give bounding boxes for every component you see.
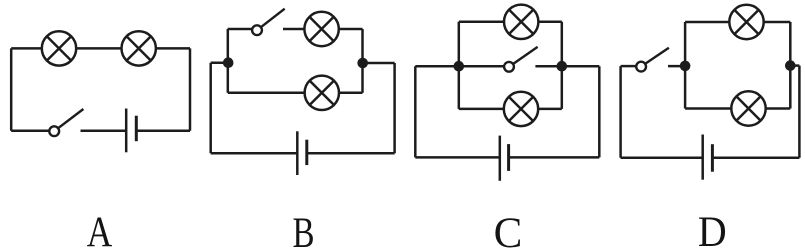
wire: C outer left vertical — [414, 66, 417, 157]
wire: B middle rail left segment — [228, 92, 305, 95]
wire: C right stub to outer — [562, 65, 600, 68]
wire: D bottom left segment — [621, 157, 703, 160]
wire: D top-left stub — [621, 65, 637, 68]
wire: B top rail middle segment — [283, 28, 305, 31]
wire: B left stub to outer — [211, 61, 228, 64]
lamp L1 (circuit D, top) — [729, 5, 763, 39]
wire: A top rail left segment — [11, 47, 41, 50]
svg-text:A: A — [87, 209, 113, 248]
svg-text:C: C — [494, 210, 523, 248]
node (circuit D, right junction) — [785, 60, 796, 71]
node (circuit D, left junction) — [680, 61, 691, 72]
wire: C left stub to outer — [415, 65, 459, 68]
lamp L1 (circuit B, top) — [304, 12, 338, 46]
wire: C outer right vertical — [598, 66, 601, 157]
switch S (circuit B, open) — [252, 9, 285, 35]
node (circuit C, left junction) — [454, 61, 465, 72]
wire: B top rail left segment — [228, 28, 252, 31]
battery (circuit A) — [126, 109, 136, 153]
wire: C top rail right segment — [538, 21, 562, 24]
svg-text:D: D — [698, 209, 727, 248]
switch S (circuit A, open) — [49, 109, 83, 136]
wire: C middle segment dot to switch — [459, 65, 505, 68]
wire: D inner left vertical — [684, 22, 687, 109]
wire: D right stub to outer — [790, 64, 799, 67]
wire: B inner left vertical — [227, 29, 230, 93]
switch S (circuit D, open) — [636, 48, 669, 72]
wire: D bottom right segment — [712, 157, 799, 160]
wire: B right stub to outer — [363, 62, 395, 65]
wire: B top rail right segment — [338, 28, 362, 31]
wire: A top rail middle segment — [77, 47, 122, 50]
lamp L2 (circuit B, middle) — [305, 76, 339, 110]
wire: D outer right vertical — [798, 66, 801, 158]
wire: B outer left vertical — [209, 63, 212, 154]
switch S (circuit C, open) — [504, 47, 537, 72]
wire: A top rail right segment — [156, 47, 190, 50]
wire: C lower rail right segment — [538, 108, 562, 111]
wire: C top rail left segment — [459, 21, 505, 24]
node (circuit B, left junction) — [223, 57, 234, 68]
wire: B bottom left segment — [211, 152, 298, 155]
wire: D outer left vertical — [619, 66, 622, 158]
lamp L2 (circuit A, right) — [122, 31, 156, 65]
wire: B bottom right segment — [307, 152, 395, 155]
wire: C lower rail left segment — [459, 108, 505, 111]
battery (circuit D) — [703, 135, 713, 180]
wire: A left vertical — [10, 48, 13, 130]
wire: B outer right vertical — [393, 63, 396, 153]
wire: A right vertical — [189, 48, 192, 130]
lamp L2 (circuit D, bottom) — [731, 91, 765, 125]
wire: C inner right vertical — [561, 22, 564, 109]
wire: A bottom segment switch to battery — [81, 129, 127, 132]
lamp L1 (circuit C, top) — [504, 5, 538, 39]
wire: A bottom left segment — [11, 129, 49, 132]
wire: C bottom left segment — [415, 156, 500, 159]
lamp L1 (circuit A, left) — [42, 31, 76, 65]
wire: D lower rail left segment — [685, 107, 732, 110]
wire: A bottom segment battery to corner — [136, 129, 190, 132]
wire: D inner right vertical — [789, 22, 792, 109]
wire: D top rail right segment — [763, 21, 790, 24]
wire: C bottom right segment — [509, 156, 600, 159]
node (circuit B, right junction) — [357, 58, 368, 69]
wire: D lower rail right segment — [765, 107, 790, 110]
wire: D top rail left segment — [685, 21, 730, 24]
wire: B middle rail right segment — [339, 92, 363, 95]
lamp L2 (circuit C, bottom) — [504, 92, 538, 126]
node (circuit C, right junction) — [557, 61, 568, 72]
wire: C inner left vertical — [458, 22, 461, 109]
battery (circuit C) — [500, 136, 509, 181]
svg-text:B: B — [293, 210, 315, 248]
wire: D segment switch to dot — [668, 65, 685, 68]
wire: B inner right vertical — [361, 29, 364, 93]
battery (circuit B) — [297, 131, 307, 175]
wire: C middle segment switch to dot — [535, 65, 561, 68]
